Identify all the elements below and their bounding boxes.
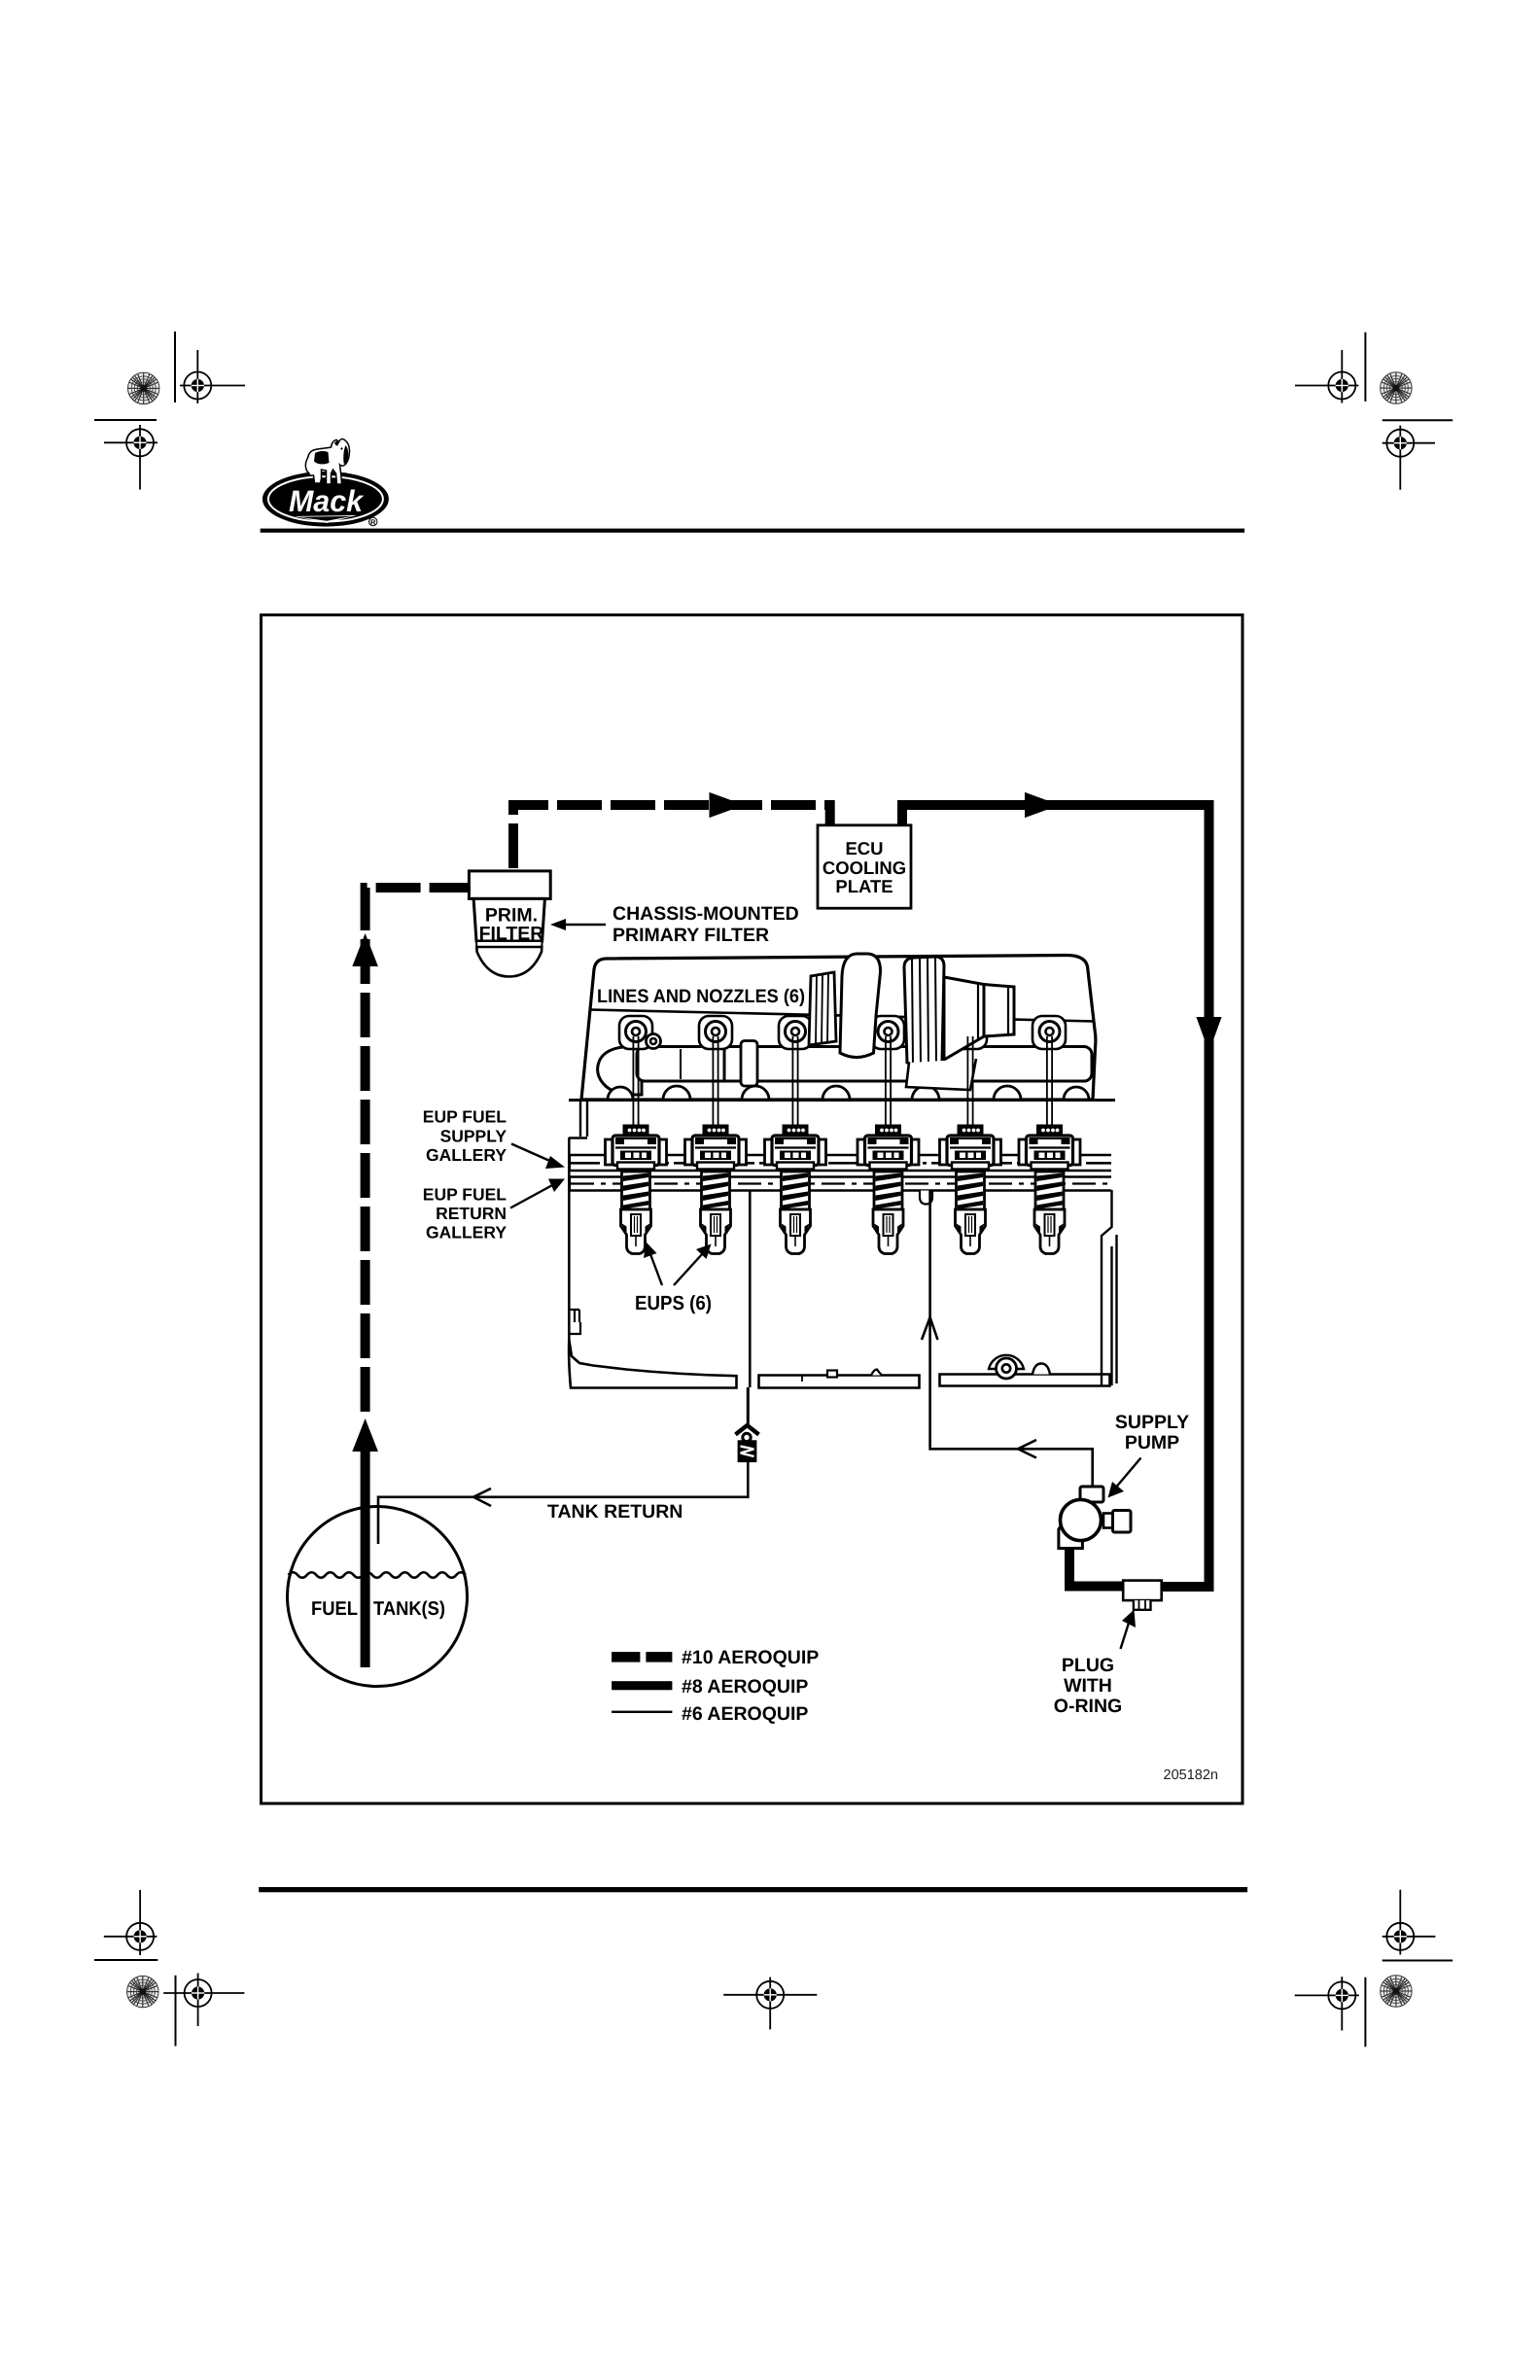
plug with o-ring: [1123, 1581, 1162, 1610]
label arrow to return gallery: [510, 1184, 554, 1208]
svg-text:RETURN: RETURN: [436, 1204, 507, 1223]
wire: tank suction solid segment through tank: [361, 1447, 370, 1667]
svg-text:COOLING: COOLING: [822, 857, 906, 878]
label arrows to EUPs: [650, 1254, 662, 1285]
oil pan left section: [569, 1340, 736, 1388]
svg-text:WITH: WITH: [1064, 1675, 1112, 1697]
svg-text:O-RING: O-RING: [1054, 1696, 1122, 1717]
internal supply line in block: [928, 1191, 931, 1388]
arrowhead up (open) on internal supply line: [922, 1317, 938, 1340]
internal return line in block: [749, 1191, 752, 1388]
engine fuel manifold tube: [598, 1041, 1092, 1096]
registration mark: bottom-left upper crosshair: [104, 1890, 157, 1955]
wire: #10 aeroquip dashed line tank-to-filter: [366, 888, 470, 1412]
svg-text:TANK(S): TANK(S): [373, 1598, 445, 1620]
Mack logo registered trademark: [369, 517, 377, 525]
registration mark: bottom-right horizontal bar: [1382, 1960, 1453, 1962]
svg-text:GALLERY: GALLERY: [426, 1223, 507, 1242]
svg-text:#10 AEROQUIP: #10 AEROQUIP: [682, 1647, 819, 1668]
wire: #10 aeroquip dashed line filter-to-ECU: [513, 805, 830, 868]
header rule: [261, 529, 1244, 533]
registration mark: bottom-right lower crosshair: [1295, 1977, 1359, 2030]
label arrow to plug: [1121, 1617, 1132, 1649]
arrowhead down on right-side #8 line: [1196, 1017, 1221, 1052]
valve cover band line: [589, 1010, 1095, 1022]
svg-text:R: R: [370, 518, 376, 527]
svg-text:LINES AND NOZZLES (6): LINES AND NOZZLES (6): [597, 986, 805, 1007]
registration mark: top-left vertical bar: [174, 332, 176, 402]
svg-text:SUPPLY: SUPPLY: [440, 1127, 507, 1146]
svg-text:PLATE: PLATE: [835, 876, 892, 896]
registration mark: bottom-right upper crosshair: [1382, 1890, 1436, 1955]
registration mark: bottom-center crosshair: [723, 1977, 817, 2030]
registration mark: top-left starburst circle: [128, 372, 159, 403]
head-block joint line: [569, 1099, 1115, 1102]
svg-text:SUPPLY: SUPPLY: [1115, 1412, 1189, 1433]
registration mark: top-right moire circle: [1381, 372, 1412, 403]
label arrow to supply pump: [1114, 1458, 1141, 1490]
wire: #8 aeroquip pump foot to plug: [1069, 1548, 1128, 1587]
wire: #6 return line engine to tank: [747, 1387, 750, 1426]
arrowhead up on tank suction line (upper): [352, 933, 378, 966]
registration mark: bottom-left horizontal bar: [94, 1959, 157, 1961]
rocker bosses row: [619, 1016, 1066, 1049]
svg-text:#6 AEROQUIP: #6 AEROQUIP: [682, 1703, 808, 1725]
EUP return gallery band: [570, 1177, 1111, 1191]
fuel tank wavy fuel level: [289, 1572, 466, 1578]
head left step column: [569, 1100, 587, 1138]
arrowhead right on ECU outlet line: [1025, 792, 1060, 818]
svg-text:ECU: ECU: [845, 838, 883, 858]
legend #10 aeroquip: [612, 1647, 819, 1668]
engine block left edge: [568, 1137, 571, 1340]
engine valve cover and head: [581, 956, 1096, 1101]
turbocharger group on valve cover: [809, 954, 1014, 1090]
svg-text:FILTER: FILTER: [479, 924, 544, 945]
oil pan middle section rim: [759, 1376, 920, 1388]
svg-text:CHASSIS-MOUNTED: CHASSIS-MOUNTED: [612, 903, 799, 925]
oil pan right section rim: [940, 1375, 1110, 1386]
svg-text:GALLERY: GALLERY: [426, 1145, 507, 1165]
registration mark: bottom-left vertical bar: [175, 1976, 177, 2047]
registration mark: bottom-right vertical bar: [1364, 1977, 1366, 2047]
registration mark: top-right lower crosshair: [1382, 426, 1435, 490]
diagram frame: [262, 615, 1243, 1804]
block left bracket detail: [569, 1310, 580, 1334]
svg-text:EUP FUEL: EUP FUEL: [423, 1107, 507, 1127]
svg-text:#8 AEROQUIP: #8 AEROQUIP: [682, 1676, 808, 1697]
registration mark: bottom-right starburst circle: [1381, 1976, 1412, 2007]
engine block white fill: [569, 1100, 1116, 1385]
registration mark: top-right horizontal bar: [1382, 419, 1453, 421]
fuel tank circle: [288, 1507, 468, 1687]
engine mount feet below manifold: [608, 1086, 1089, 1100]
supply pump: [1059, 1487, 1131, 1549]
svg-text:TANK RETURN: TANK RETURN: [547, 1501, 682, 1522]
primary filter: [469, 871, 550, 977]
EUP supply gallery band: [570, 1155, 1111, 1171]
engine block right edge: [1102, 1190, 1117, 1385]
registration mark: top-right vertical bar: [1364, 332, 1366, 402]
svg-text:FUEL: FUEL: [311, 1598, 358, 1620]
svg-text:EUP FUEL: EUP FUEL: [423, 1185, 507, 1205]
svg-text:PUMP: PUMP: [1125, 1432, 1179, 1453]
registration mark: top-left upper crosshair: [180, 350, 245, 403]
label arrow to supply gallery: [511, 1144, 554, 1164]
Mack logo oval: [262, 472, 389, 527]
wire: #6 supply line pump to engine: [930, 1387, 1093, 1487]
svg-text:EUPS (6): EUPS (6): [635, 1292, 712, 1314]
registration mark: bottom-left moire circle: [127, 1976, 158, 2007]
arrowhead right on filter-to-ECU line: [710, 792, 745, 818]
registration mark: top-left horizontal bar: [94, 419, 157, 421]
svg-text:205182n: 205182n: [1164, 1767, 1218, 1783]
ECU cooling plate box: [818, 825, 911, 908]
footer rule: [259, 1887, 1247, 1892]
legend #8 aeroquip: [612, 1676, 808, 1697]
arrowhead up on tank suction line (lower): [352, 1418, 378, 1452]
registration mark: bottom-left lower crosshair: [163, 1974, 244, 2027]
arrowhead left (open) on tank return line: [473, 1488, 491, 1506]
crankshaft pulley: [989, 1355, 1050, 1379]
check valve on return line: [736, 1425, 759, 1461]
legend #6 aeroquip: [612, 1703, 808, 1725]
wire: #8 aeroquip solid line ECU to plug: [902, 805, 1209, 1587]
bell housing notch below return gallery: [920, 1191, 932, 1205]
svg-text:PRIMARY FILTER: PRIMARY FILTER: [612, 925, 769, 946]
Mack logo bulldog: [305, 438, 349, 484]
registration mark: top-left lower crosshair: [104, 425, 157, 490]
svg-text:PLUG: PLUG: [1062, 1655, 1114, 1676]
label arrow to filter: [562, 924, 606, 926]
registration mark: top-right crosshair: [1295, 350, 1358, 403]
EUP units 1-6: [606, 1036, 667, 1254]
arrowhead left (open) on pump-to-engine line: [1018, 1440, 1036, 1458]
svg-text:Mack: Mack: [289, 484, 365, 518]
